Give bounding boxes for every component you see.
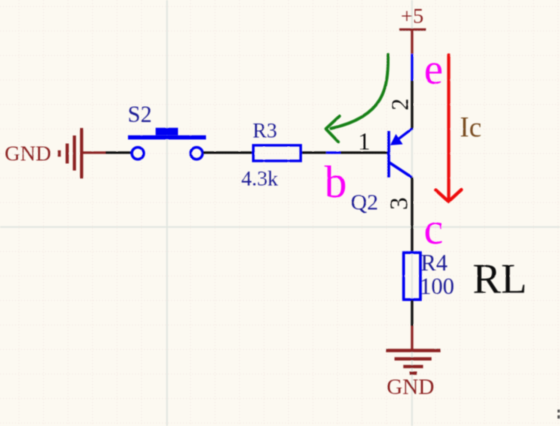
wire to Q2 base pin [341,151,388,154]
wire ground to S2 [106,151,133,154]
switch S2 [128,102,206,160]
ground bar small [58,150,61,156]
red arrowhead [436,190,462,202]
ground bar 4 tall [80,128,83,179]
+5 stem [411,31,414,54]
power port GND (bottom) [386,326,441,399]
wire blue segment [326,151,340,154]
+5 bar [399,28,426,31]
emitter arrowhead [390,134,403,145]
wire blue from +5 [411,54,414,81]
switch contact circle right [191,147,203,159]
ground bar 2 [66,144,69,164]
svg-text:Q2: Q2 [351,190,379,215]
svg-text:R4: R4 [421,250,448,275]
svg-text:1: 1 [358,128,370,155]
transistor Q2 [351,98,414,214]
switch contact circle left [132,147,144,159]
gnd bar 1 [386,349,441,352]
svg-text:100: 100 [420,274,455,299]
annotation red arrow Ic [447,55,450,200]
R4 body [404,253,421,300]
svg-text:S2: S2 [128,102,152,127]
svg-text:2: 2 [388,98,414,110]
wire to Q2 emitter pin [411,81,414,129]
switch button bump [156,128,178,136]
svg-text:GND: GND [387,374,435,399]
base bar [387,131,390,178]
annotation green arrow [331,55,388,129]
svg-text:c: c [424,205,444,254]
wire Q2 collector to R4 [411,177,414,251]
svg-text:GND: GND [5,142,52,166]
power port +5 [399,4,426,54]
svg-text:e: e [424,47,443,94]
R3 body [253,145,300,161]
svg-text:RL: RL [473,256,527,303]
svg-text:4.3k: 4.3k [241,167,278,191]
wire S2 to R3 [203,151,253,154]
green arrowhead [326,116,340,142]
emitter lead diagonal (top) [392,128,413,144]
wire R3 to node (black pin) [302,151,326,154]
gnd bar 2 [395,357,432,360]
GND stem [411,326,414,350]
svg-text:b: b [324,157,347,207]
resistor R4 [404,250,455,299]
switch actuator bar [128,135,206,139]
edge artifact marks [558,410,560,413]
svg-text:Ic: Ic [460,112,482,143]
resistor R3 [241,119,300,191]
svg-text:3: 3 [384,197,413,210]
svg-text:+5: +5 [401,4,424,28]
power pin wire (dark red) [83,151,106,154]
svg-text:R3: R3 [253,119,278,143]
collector lead diagonal (bottom) [389,162,412,177]
power port GND (left) [5,128,106,179]
gnd bar 4 [410,372,418,375]
gnd bar 3 [403,365,423,368]
ground bar 3 [73,136,76,171]
wire R4 to GND [411,300,414,326]
